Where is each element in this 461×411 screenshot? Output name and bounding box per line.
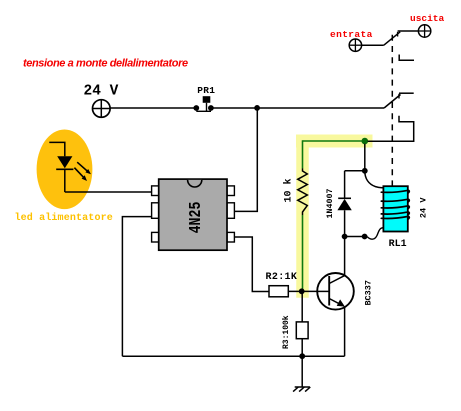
highlighted net (yellow marker) xyxy=(303,141,367,292)
LED symbol xyxy=(49,142,91,192)
svg-text:BC337: BC337 xyxy=(364,280,374,306)
green wire: resistor 10k to base node xyxy=(302,215,304,289)
ground (chassis) xyxy=(293,356,310,391)
svg-text:R2:1K: R2:1K xyxy=(266,272,298,283)
wire: LED to optocoupler pin 1 xyxy=(65,191,152,193)
resistor R3 100k (box) xyxy=(282,294,308,357)
wire: rail down to optocoupler pin 5 xyxy=(235,108,258,211)
svg-text:24 V: 24 V xyxy=(419,197,429,218)
svg-text:tensione a monte dellalimentat: tensione a monte dellalimentatore xyxy=(23,58,188,70)
node: emitter rail junction xyxy=(299,353,305,359)
terminal uscita xyxy=(410,13,445,37)
wire: emitter down to bottom rail xyxy=(344,307,346,357)
wire: optocoupler pin 2 to bottom rail xyxy=(122,217,151,357)
node: diode top junction xyxy=(362,168,368,174)
diode D1 1N4007 xyxy=(326,171,352,237)
svg-text:led alimentatore: led alimentatore xyxy=(15,212,113,224)
optocoupler U1 4N25 xyxy=(152,179,235,250)
svg-text:4N25: 4N25 xyxy=(187,202,206,234)
switch pole 2 lower contact and wire to green node xyxy=(368,116,414,142)
svg-text:PR1: PR1 xyxy=(197,85,215,96)
relay coil RL1 xyxy=(381,186,409,231)
wire: optocoupler pin 4 to R2 xyxy=(234,237,269,292)
wire: supply to pushbutton xyxy=(110,107,196,109)
svg-text:RL1: RL1 xyxy=(389,239,407,250)
green wire: down to resistor 10k xyxy=(302,140,304,168)
terminal entrata xyxy=(330,29,373,51)
switch pole 1 (entrata/uscita) xyxy=(362,31,419,45)
svg-text:entrata: entrata xyxy=(330,29,373,40)
LED indicator ellipse xyxy=(37,130,93,210)
resistor R2 1K (box) xyxy=(266,272,298,297)
wire: curve from relay coil bottom to bottom node xyxy=(367,228,383,239)
power source symbol (circle with cross) xyxy=(93,100,111,118)
switch pole 2 (24V rail) xyxy=(384,93,414,108)
green wire: top horizontal of highlighted net xyxy=(303,140,363,142)
switch pole 1 lower contact xyxy=(399,55,414,61)
svg-text:10 k: 10 k xyxy=(282,178,294,202)
wire: bottom rail xyxy=(122,355,344,357)
resistor 10k (zigzag) xyxy=(282,169,307,216)
node: diode bottom junction xyxy=(342,234,348,240)
pushbutton PR1 xyxy=(193,85,215,111)
wire: R2 to base node xyxy=(288,290,317,292)
wire: diode top branch xyxy=(345,170,365,172)
node: relay bottom junction xyxy=(362,234,368,240)
transistor Q1 BC337 xyxy=(317,273,373,310)
wire: curve from top node to relay coil top xyxy=(365,171,385,188)
dashed mechanical link xyxy=(391,35,393,186)
wire: pushbutton to switch (24V rail) xyxy=(211,107,384,109)
svg-text:uscita: uscita xyxy=(410,13,445,24)
wire: collector up to diode/relay node xyxy=(344,237,346,276)
svg-text:1N4007: 1N4007 xyxy=(326,189,335,219)
svg-text:24 V: 24 V xyxy=(84,84,119,100)
wire: green node down to diode top node xyxy=(364,144,366,171)
node: base junction (R2 / 10k / base) xyxy=(299,288,305,294)
svg-text:R3:100k: R3:100k xyxy=(282,315,291,349)
wire: diode bottom to relay bottom xyxy=(345,236,365,238)
green node junction xyxy=(362,138,369,145)
node: junction on 24V rail xyxy=(254,105,260,111)
